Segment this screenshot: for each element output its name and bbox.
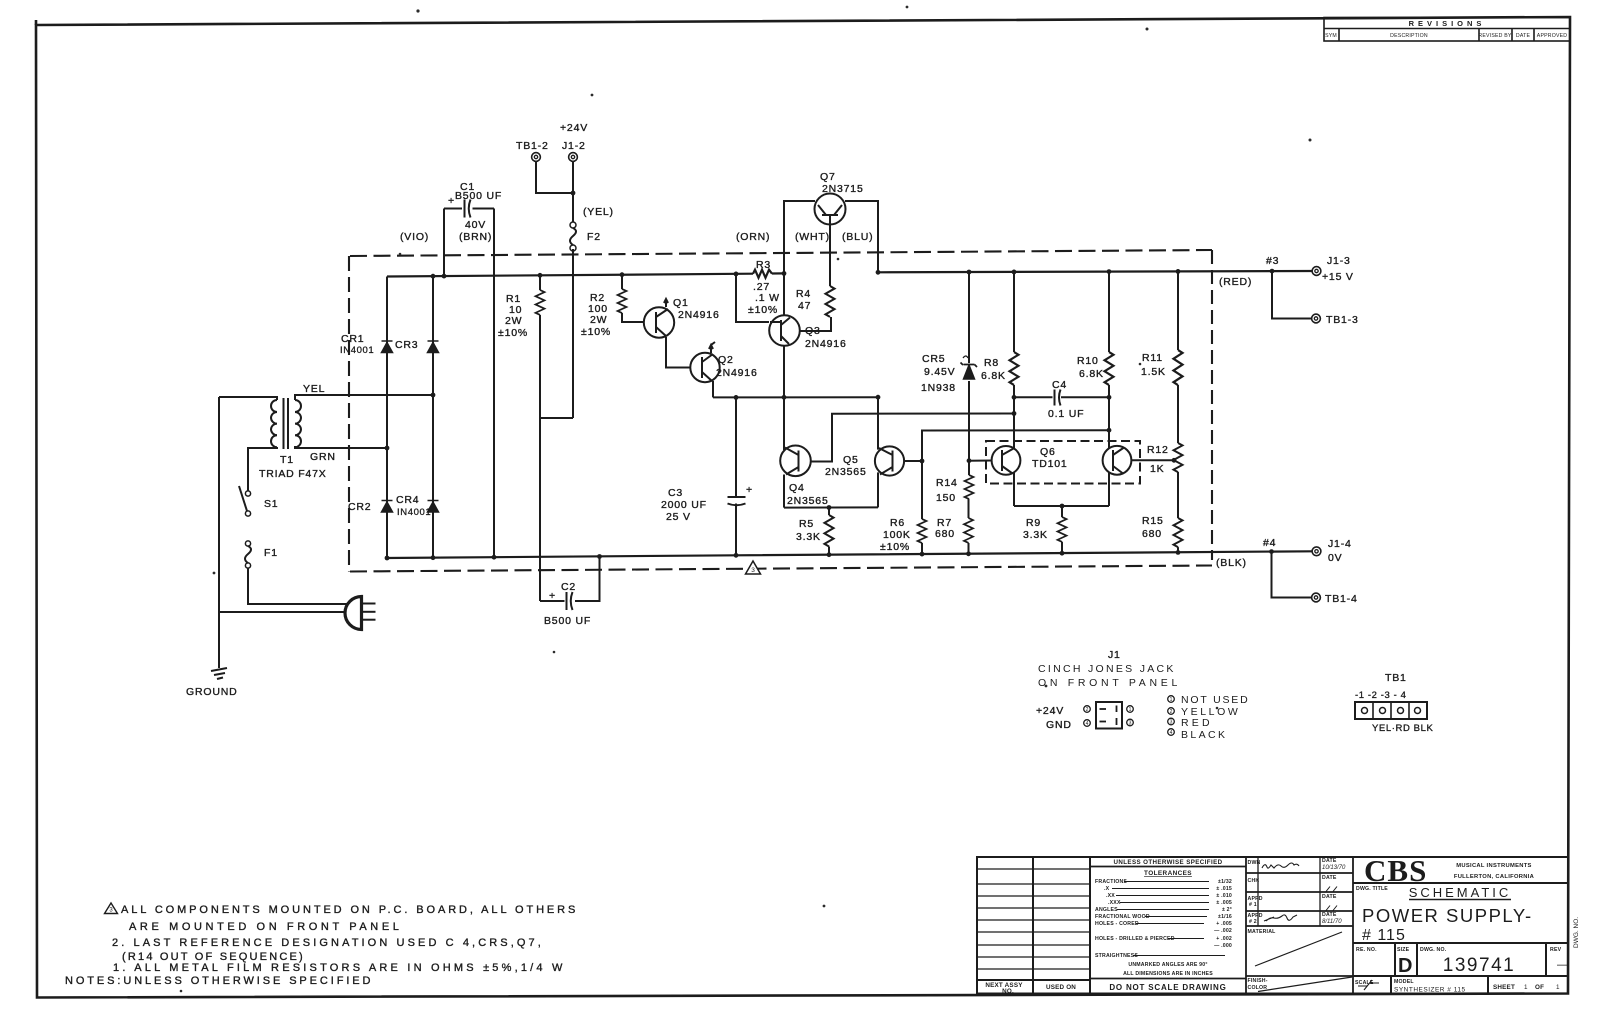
svg-text:1N938: 1N938 bbox=[921, 382, 956, 394]
svg-text:4: 4 bbox=[1086, 721, 1089, 727]
svg-text:MATERIAL: MATERIAL bbox=[1248, 929, 1277, 935]
svg-text:1K: 1K bbox=[1150, 463, 1164, 475]
svg-text:S1: S1 bbox=[264, 498, 278, 510]
svg-text:HOLES - CORED: HOLES - CORED bbox=[1095, 921, 1139, 927]
svg-text:(ORN): (ORN) bbox=[736, 231, 770, 243]
svg-text:DO NOT SCALE DRAWING: DO NOT SCALE DRAWING bbox=[1109, 983, 1226, 992]
svg-text:Q4: Q4 bbox=[789, 482, 805, 494]
svg-text:Q6: Q6 bbox=[1040, 446, 1056, 458]
svg-text:0.1 UF: 0.1 UF bbox=[1048, 408, 1084, 420]
svg-text:C2: C2 bbox=[561, 581, 576, 593]
svg-text:Q5: Q5 bbox=[843, 454, 859, 466]
svg-text:F2: F2 bbox=[587, 231, 601, 243]
svg-text:40V: 40V bbox=[465, 219, 486, 231]
svg-text:ARE MOUNTED ON FRONT PANEL: ARE MOUNTED ON FRONT PANEL bbox=[129, 921, 403, 933]
svg-text:CR4: CR4 bbox=[396, 494, 419, 506]
svg-text:SIZE: SIZE bbox=[1397, 947, 1410, 953]
svg-text:TB1-3: TB1-3 bbox=[1326, 314, 1359, 326]
svg-text:DWG. NO.: DWG. NO. bbox=[1420, 947, 1447, 953]
svg-text:TD101: TD101 bbox=[1032, 458, 1068, 470]
svg-text:BLACK: BLACK bbox=[1181, 729, 1227, 741]
svg-text:NO.: NO. bbox=[1002, 988, 1014, 995]
svg-text:ANGLES: ANGLES bbox=[1095, 907, 1118, 913]
svg-text:± 2°: ± 2° bbox=[1222, 907, 1232, 913]
svg-text:J1-2: J1-2 bbox=[562, 140, 586, 152]
svg-text:R4: R4 bbox=[796, 288, 811, 300]
svg-text:DATE: DATE bbox=[1322, 894, 1337, 900]
svg-text:2N4916: 2N4916 bbox=[678, 309, 720, 321]
svg-text:+: + bbox=[448, 195, 455, 207]
svg-text:Q2: Q2 bbox=[718, 354, 734, 366]
svg-text:2N3565: 2N3565 bbox=[787, 495, 829, 507]
svg-text:Q3: Q3 bbox=[805, 325, 821, 337]
svg-text:DWG. TITLE: DWG. TITLE bbox=[1356, 886, 1388, 892]
svg-text:DATE: DATE bbox=[1322, 875, 1337, 881]
svg-text:UNLESS OTHERWISE SPECIFIED: UNLESS OTHERWISE SPECIFIED bbox=[1114, 859, 1223, 866]
svg-text:CR2: CR2 bbox=[348, 501, 371, 513]
svg-text:1: 1 bbox=[1524, 984, 1528, 991]
svg-text:+: + bbox=[746, 484, 753, 496]
svg-text:F1: F1 bbox=[264, 547, 278, 559]
svg-text:139741: 139741 bbox=[1443, 955, 1515, 976]
svg-text:D: D bbox=[1398, 955, 1412, 977]
svg-text:+24V: +24V bbox=[560, 122, 588, 134]
svg-text:6.8K: 6.8K bbox=[981, 370, 1006, 382]
svg-text:#3: #3 bbox=[1266, 255, 1279, 267]
svg-text:+ .005: + .005 bbox=[1216, 921, 1232, 927]
svg-text:J1: J1 bbox=[1108, 649, 1121, 661]
svg-text:2. LAST REFERENCE DESIGNATION: 2. LAST REFERENCE DESIGNATION USED C 4,C… bbox=[112, 937, 544, 949]
svg-text:CBS: CBS bbox=[1364, 853, 1427, 888]
svg-text:DWN: DWN bbox=[1248, 860, 1261, 866]
svg-text:Q1: Q1 bbox=[673, 297, 689, 309]
svg-text:1: 1 bbox=[1170, 697, 1173, 703]
svg-text:DATE: DATE bbox=[1516, 33, 1531, 39]
svg-text:3: 3 bbox=[1129, 721, 1132, 727]
svg-text:J1-3: J1-3 bbox=[1327, 255, 1351, 267]
svg-text:NOTES:UNLESS OTHERWISE SPECIFI: NOTES:UNLESS OTHERWISE SPECIFIED bbox=[65, 975, 373, 987]
svg-text:25 V: 25 V bbox=[666, 511, 691, 523]
svg-text:6.8K: 6.8K bbox=[1079, 368, 1104, 380]
svg-text:2: 2 bbox=[1170, 709, 1173, 715]
svg-text:1: 1 bbox=[1129, 707, 1132, 713]
svg-text:150: 150 bbox=[936, 492, 956, 504]
svg-text:3.3K: 3.3K bbox=[1023, 529, 1048, 541]
svg-text:± .005: ± .005 bbox=[1216, 900, 1232, 906]
svg-text:T1: T1 bbox=[280, 454, 294, 466]
svg-text:APPROVED: APPROVED bbox=[1537, 33, 1567, 39]
svg-text:-1 -2 -3 - 4: -1 -2 -3 - 4 bbox=[1355, 690, 1407, 701]
svg-text:ON FRONT PANEL: ON FRONT PANEL bbox=[1038, 677, 1181, 689]
svg-text:DATE: DATE bbox=[1322, 912, 1337, 918]
svg-text:R10: R10 bbox=[1077, 355, 1099, 367]
svg-text:FINISH-: FINISH- bbox=[1248, 978, 1268, 984]
svg-text:ALL COMPONENTS MOUNTED ON P.C.: ALL COMPONENTS MOUNTED ON P.C. BOARD, AL… bbox=[121, 904, 578, 916]
svg-text:1. ALL METAL FILM RESISTORS AR: 1. ALL METAL FILM RESISTORS ARE IN OHMS … bbox=[113, 962, 566, 974]
svg-text:680: 680 bbox=[935, 528, 955, 540]
svg-text:STRAIGHTNESS: STRAIGHTNESS bbox=[1095, 953, 1138, 959]
svg-text:680: 680 bbox=[1142, 528, 1162, 540]
svg-text:.XXX: .XXX bbox=[1108, 900, 1121, 906]
svg-text:— .002: — .002 bbox=[1214, 928, 1232, 934]
svg-text:R15: R15 bbox=[1142, 515, 1164, 527]
svg-text:DWG. NO.: DWG. NO. bbox=[1573, 917, 1580, 948]
svg-text:8/11/70: 8/11/70 bbox=[1322, 919, 1342, 925]
svg-text:(BRN): (BRN) bbox=[459, 231, 492, 243]
svg-text:±10%: ±10% bbox=[748, 304, 778, 316]
svg-text:1.5K: 1.5K bbox=[1141, 366, 1166, 378]
svg-text:CHK: CHK bbox=[1248, 878, 1260, 884]
svg-text:100K: 100K bbox=[883, 529, 911, 541]
svg-text:TB1: TB1 bbox=[1385, 672, 1407, 684]
svg-text:R5: R5 bbox=[799, 518, 814, 530]
svg-text:1: 1 bbox=[1556, 984, 1560, 991]
svg-text:±10%: ±10% bbox=[498, 327, 528, 339]
svg-text:SCHEMATIC: SCHEMATIC bbox=[1409, 885, 1512, 900]
svg-text:(VIO): (VIO) bbox=[400, 231, 429, 243]
svg-text:B500 UF: B500 UF bbox=[544, 615, 591, 627]
svg-text:CR3: CR3 bbox=[395, 339, 418, 351]
svg-text:3: 3 bbox=[751, 567, 755, 574]
svg-text:CR5: CR5 bbox=[922, 353, 945, 365]
svg-text:.XX: .XX bbox=[1106, 893, 1115, 899]
svg-text:+15 V: +15 V bbox=[1322, 271, 1354, 283]
svg-text:±10%: ±10% bbox=[880, 541, 910, 553]
svg-text:GRN: GRN bbox=[310, 451, 336, 463]
svg-text:.1 W: .1 W bbox=[755, 292, 780, 304]
svg-text:.X: .X bbox=[1104, 886, 1110, 892]
svg-text:TOLERANCES: TOLERANCES bbox=[1144, 870, 1192, 877]
svg-text:±10%: ±10% bbox=[581, 326, 611, 338]
svg-text:2N3565: 2N3565 bbox=[825, 466, 867, 478]
svg-text:R9: R9 bbox=[1026, 517, 1041, 529]
svg-text:IN4001: IN4001 bbox=[340, 345, 374, 356]
svg-text:REV: REV bbox=[1550, 947, 1562, 953]
svg-text:2N4916: 2N4916 bbox=[805, 338, 847, 350]
svg-text:±1/16: ±1/16 bbox=[1218, 914, 1232, 920]
svg-text:GROUND: GROUND bbox=[186, 686, 237, 698]
svg-text:YEL: YEL bbox=[303, 383, 325, 395]
svg-text:(WHT): (WHT) bbox=[795, 231, 830, 243]
svg-text:+: + bbox=[549, 590, 556, 602]
svg-text:R14: R14 bbox=[936, 477, 958, 489]
svg-text:—: — bbox=[1557, 959, 1568, 971]
svg-text:R6: R6 bbox=[890, 517, 905, 529]
svg-text:DATE: DATE bbox=[1322, 858, 1337, 864]
svg-text:+ .002: + .002 bbox=[1216, 936, 1232, 942]
svg-text:IN4001: IN4001 bbox=[397, 507, 431, 518]
svg-text:47: 47 bbox=[798, 300, 811, 312]
svg-text:OF: OF bbox=[1535, 984, 1544, 991]
svg-text:2N4916: 2N4916 bbox=[716, 367, 758, 379]
svg-text:2W: 2W bbox=[590, 314, 607, 326]
svg-text:# 1: # 1 bbox=[1249, 902, 1257, 908]
svg-text:GND: GND bbox=[1046, 719, 1072, 731]
svg-text:SHEET: SHEET bbox=[1493, 984, 1515, 991]
svg-text:ALL DIMENSIONS ARE IN INCHES: ALL DIMENSIONS ARE IN INCHES bbox=[1123, 971, 1213, 977]
svg-text:HOLES - DRILLED & PIERCED: HOLES - DRILLED & PIERCED bbox=[1095, 936, 1175, 942]
svg-text:— .000: — .000 bbox=[1214, 943, 1232, 949]
svg-text:2W: 2W bbox=[505, 315, 522, 327]
svg-text:(YEL): (YEL) bbox=[583, 206, 614, 218]
svg-text:C4: C4 bbox=[1052, 379, 1067, 391]
svg-text:YEL·RD BLK: YEL·RD BLK bbox=[1372, 723, 1434, 734]
svg-text:# 2: # 2 bbox=[1249, 919, 1257, 925]
svg-text:+24V: +24V bbox=[1036, 705, 1064, 717]
svg-text:FRACTIONAL WOOD: FRACTIONAL WOOD bbox=[1095, 914, 1150, 920]
svg-text:C3: C3 bbox=[668, 487, 683, 499]
svg-text:(BLU): (BLU) bbox=[842, 231, 873, 243]
svg-text:9.45V: 9.45V bbox=[924, 366, 955, 378]
svg-text:FRACTIONS: FRACTIONS bbox=[1095, 879, 1127, 885]
svg-text:UNMARKED ANGLES ARE 90°: UNMARKED ANGLES ARE 90° bbox=[1128, 962, 1207, 968]
svg-text:TRIAD F47X: TRIAD F47X bbox=[259, 468, 327, 480]
svg-text:FULLERTON, CALIFORNIA: FULLERTON, CALIFORNIA bbox=[1454, 874, 1535, 880]
svg-text:NOT USED: NOT USED bbox=[1181, 694, 1249, 706]
svg-text:(BLK): (BLK) bbox=[1216, 557, 1247, 569]
svg-text:± .010: ± .010 bbox=[1216, 893, 1232, 899]
svg-text:R11: R11 bbox=[1142, 352, 1163, 364]
svg-text:± .015: ± .015 bbox=[1216, 886, 1232, 892]
svg-text:DESCRIPTION: DESCRIPTION bbox=[1390, 33, 1428, 39]
svg-text:R3: R3 bbox=[756, 259, 771, 271]
svg-text:B500 UF: B500 UF bbox=[455, 190, 502, 202]
svg-text:2: 2 bbox=[1086, 707, 1089, 713]
svg-text:MODEL: MODEL bbox=[1394, 979, 1414, 985]
svg-text:Q7: Q7 bbox=[820, 171, 836, 183]
svg-text:J1-4: J1-4 bbox=[1328, 538, 1352, 550]
svg-text:(RED): (RED) bbox=[1219, 276, 1252, 288]
svg-text:POWER SUPPLY-: POWER SUPPLY- bbox=[1362, 905, 1533, 926]
svg-text:R12: R12 bbox=[1147, 444, 1169, 456]
svg-text:#4: #4 bbox=[1263, 537, 1276, 549]
svg-text:R8: R8 bbox=[984, 357, 999, 369]
svg-text:RE. NO.: RE. NO. bbox=[1356, 947, 1377, 953]
svg-text:2000 UF: 2000 UF bbox=[661, 499, 707, 511]
svg-text:CR1: CR1 bbox=[341, 333, 364, 345]
svg-text:SYNTHESIZER # 115: SYNTHESIZER # 115 bbox=[1394, 987, 1466, 994]
svg-text:CINCH JONES JACK: CINCH JONES JACK bbox=[1038, 663, 1176, 675]
svg-text:SYM: SYM bbox=[1325, 33, 1337, 39]
svg-text:±1/32: ±1/32 bbox=[1218, 879, 1232, 885]
svg-text:TB1-4: TB1-4 bbox=[1325, 593, 1358, 605]
svg-text:10/13/70: 10/13/70 bbox=[1322, 865, 1346, 871]
svg-text:USED ON: USED ON bbox=[1046, 984, 1076, 991]
svg-text:RED: RED bbox=[1181, 717, 1213, 729]
svg-text:2N3715: 2N3715 bbox=[822, 183, 864, 195]
svg-text:3: 3 bbox=[1170, 720, 1173, 726]
svg-text:MUSICAL INSTRUMENTS: MUSICAL INSTRUMENTS bbox=[1456, 863, 1531, 869]
svg-text:3.3K: 3.3K bbox=[796, 531, 821, 543]
svg-text:REVISIONS: REVISIONS bbox=[1409, 19, 1486, 28]
svg-text:4: 4 bbox=[1170, 730, 1173, 736]
svg-text:TB1-2: TB1-2 bbox=[516, 140, 549, 152]
svg-text:REVISED BY: REVISED BY bbox=[1478, 33, 1511, 39]
svg-text:0V: 0V bbox=[1328, 552, 1342, 564]
svg-text:# 115: # 115 bbox=[1362, 927, 1406, 944]
